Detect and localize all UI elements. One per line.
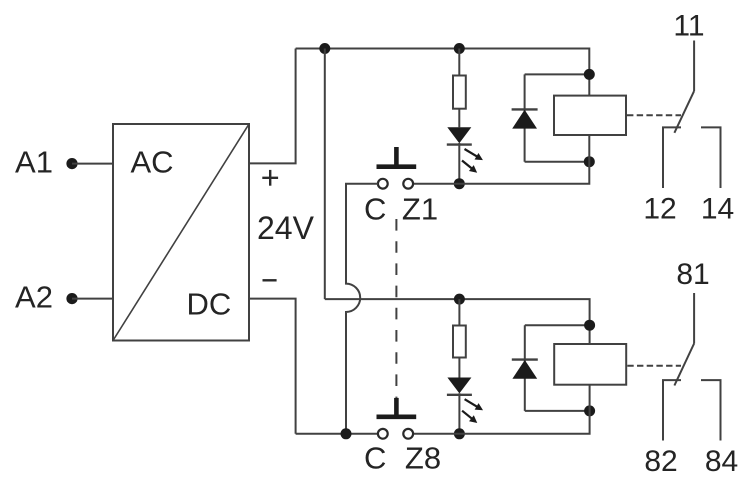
svg-text:82: 82 [644,445,677,478]
junction dot LED / top return bus [454,178,465,189]
wire diode V2 top to relay K2 top [525,324,590,326]
terminal 12 lead [663,127,681,188]
dashed mechanical link between buttons [395,219,397,398]
wire diode bottom to relay bottom [525,161,590,163]
wire diode V2 bottom to relay K2 bottom [525,410,590,412]
flyback diode V2 [512,325,538,411]
test button S2 [377,398,417,417]
wire top positive bus [296,49,590,96]
wire A1 to converter [72,163,113,165]
LED D1 light arrows [460,146,485,176]
svg-text:A2: A2 [15,280,53,315]
wire R1 to LED [458,109,460,128]
svg-text:Z8: Z8 [405,441,441,476]
wire - output down to bottom bus [249,299,296,434]
wire positive branch down to lower channel [324,49,326,300]
junction dot lower bus / resistor R2 branch [454,294,465,305]
dashed mechanical link relay K1 to contact [627,114,681,116]
wire lower return bus to C contact [296,433,378,435]
terminal 84 lead [701,380,721,440]
contact circle Z1 [403,179,413,189]
junction dot top bus / resistor branch [454,43,465,54]
junction dot LED D2 / lower return bus [454,428,465,439]
wire A2 to converter [72,298,113,300]
dashed mechanical link relay K2 to contact [627,365,681,367]
contact circle C (bottom) [378,429,388,439]
junction dot relay coil bottom [584,156,595,167]
svg-text:Z1: Z1 [402,192,438,227]
svg-text:81: 81 [676,258,709,291]
label - negative output [263,279,277,281]
contact arm (81-82) [674,344,694,386]
contact 81 lead [693,293,695,344]
AC/DC converter U1 [113,124,249,341]
svg-text:A1: A1 [15,145,53,180]
test button S1 [377,147,417,167]
contact circle C (top) [378,179,388,189]
svg-text:12: 12 [643,193,676,226]
relay coil K2 [554,344,626,385]
wire + output up to top bus [249,49,296,164]
terminal 14 lead [701,127,721,188]
wire relay bottom to return bus [413,135,589,184]
svg-text:24V: 24V [257,210,315,246]
svg-text:84: 84 [705,445,738,478]
svg-text:14: 14 [701,193,734,226]
junction dot relay K2 bottom [584,405,595,416]
LED D2 [447,378,472,395]
wire lower positive bus [325,299,590,344]
node A1 [66,158,77,169]
contact circle Z8 [403,429,413,439]
label + positive output [262,170,278,186]
relay coil K1 [554,96,626,135]
wire relay K2 bottom to lower return bus [413,385,589,434]
wire bus to resistor R2 [458,299,460,325]
wire bus to resistor R1 [458,49,460,76]
LED D2 light arrows [460,396,485,426]
terminal 82 lead [663,380,681,440]
resistor R1 [453,76,466,109]
contact 11 lead [693,41,695,92]
contact arm (11-12) [674,91,694,133]
svg-text:C: C [364,441,386,476]
junction dot relay K2 top [584,320,595,331]
LED D1 [447,127,472,144]
junction dot relay coil top [584,69,595,80]
svg-text:C: C [364,192,386,227]
svg-text:DC: DC [187,287,232,322]
flyback diode V1 [512,74,538,161]
resistor R2 [453,326,466,358]
wire diode top to relay top [525,73,590,75]
wire LED D2 to lower return bus [458,393,460,434]
node A2 [66,293,77,304]
wire C contact to common rail with hop over lower bus [346,184,378,434]
junction dot top bus / branch to lower channel [319,43,330,54]
wire R2 to LED [458,358,460,378]
svg-text:AC: AC [131,145,174,180]
wire LED to lower node [458,143,460,184]
svg-text:11: 11 [673,10,704,43]
junction dot common rail / lower return bus [341,428,352,439]
